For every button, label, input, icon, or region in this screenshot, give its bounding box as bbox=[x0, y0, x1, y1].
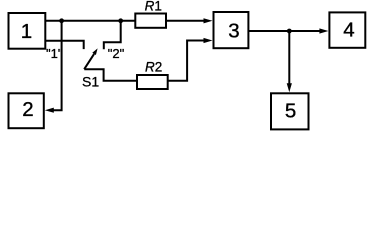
svg-text:R2: R2 bbox=[145, 60, 162, 75]
svg-text:2: 2 bbox=[22, 98, 33, 121]
svg-text:"1": "1" bbox=[46, 46, 63, 61]
svg-text:3: 3 bbox=[228, 20, 239, 43]
svg-text:5: 5 bbox=[285, 100, 296, 123]
svg-text:1: 1 bbox=[21, 20, 32, 43]
svg-text:"2": "2" bbox=[108, 46, 125, 61]
svg-text:S1: S1 bbox=[82, 74, 99, 90]
svg-text:R1: R1 bbox=[145, 0, 162, 14]
svg-text:4: 4 bbox=[343, 18, 354, 41]
